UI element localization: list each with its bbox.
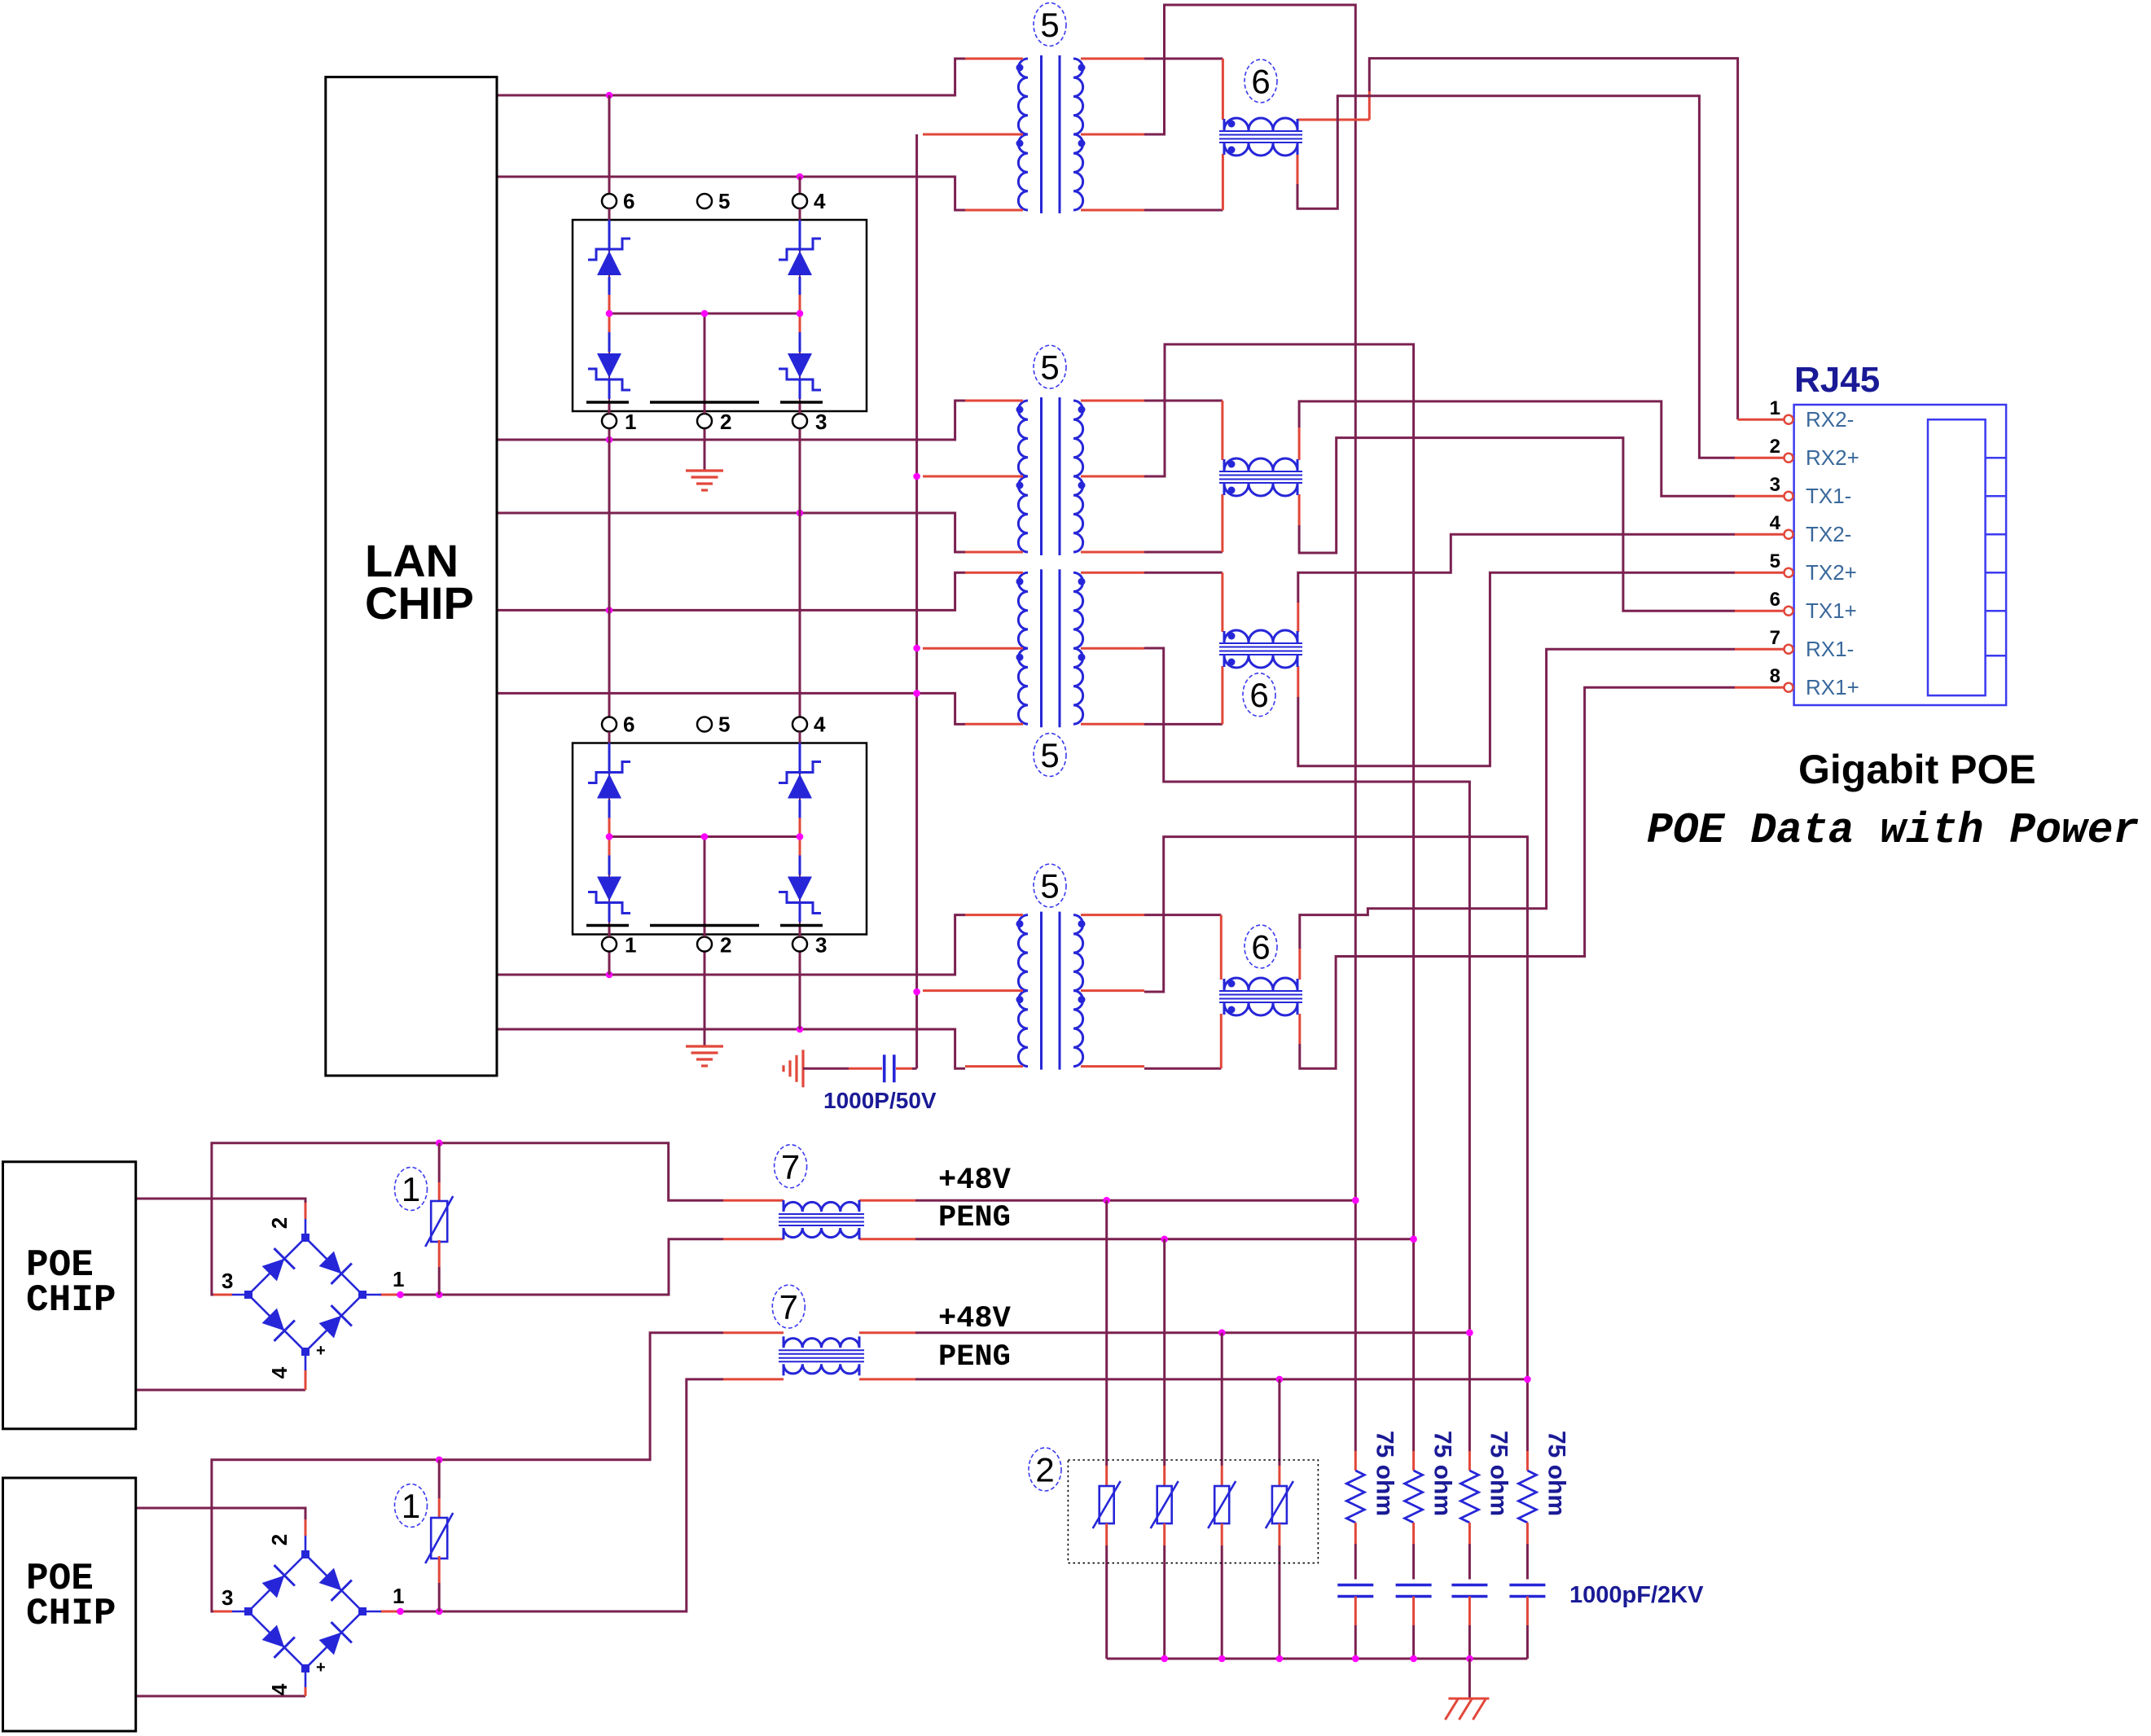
svg-text:4: 4 <box>814 189 826 213</box>
svg-text:1: 1 <box>393 1267 404 1291</box>
svg-text:RX2+: RX2+ <box>1806 445 1859 470</box>
svg-text:6: 6 <box>1251 63 1270 101</box>
svg-text:POE Data with Power: POE Data with Power <box>1647 806 2139 855</box>
svg-text:2: 2 <box>267 1534 292 1545</box>
svg-text:5: 5 <box>718 712 730 737</box>
svg-text:8: 8 <box>1770 665 1780 687</box>
svg-text:RX2-: RX2- <box>1806 407 1854 432</box>
svg-text:TX1-: TX1- <box>1806 484 1851 508</box>
svg-text:4: 4 <box>267 1683 292 1695</box>
svg-text:RX1-: RX1- <box>1806 637 1854 661</box>
svg-text:5: 5 <box>1040 867 1059 905</box>
svg-text:1: 1 <box>402 1170 420 1208</box>
svg-text:4: 4 <box>814 712 826 737</box>
svg-text:2: 2 <box>267 1217 292 1229</box>
svg-text:2: 2 <box>1770 436 1780 458</box>
svg-text:+: + <box>316 1659 326 1677</box>
svg-text:5: 5 <box>718 189 730 213</box>
svg-text:6: 6 <box>623 189 634 213</box>
svg-text:1000pF/2KV: 1000pF/2KV <box>1569 1582 1704 1608</box>
svg-text:TX2-: TX2- <box>1806 522 1851 546</box>
svg-text:3: 3 <box>222 1585 233 1610</box>
svg-text:TX2+: TX2+ <box>1806 560 1857 585</box>
svg-text:1: 1 <box>1770 397 1780 419</box>
svg-text:3: 3 <box>815 410 827 434</box>
svg-text:+48V: +48V <box>938 1164 1012 1198</box>
svg-text:5: 5 <box>1040 6 1059 44</box>
svg-text:1: 1 <box>625 410 636 434</box>
svg-text:75 ohm: 75 ohm <box>1485 1431 1512 1516</box>
svg-text:+: + <box>316 1342 326 1360</box>
svg-text:PENG: PENG <box>938 1340 1011 1374</box>
svg-text:4: 4 <box>1770 512 1781 534</box>
svg-text:+48V: +48V <box>938 1302 1012 1336</box>
svg-text:7: 7 <box>779 1288 798 1326</box>
svg-text:RJ45: RJ45 <box>1794 360 1880 400</box>
svg-text:2: 2 <box>720 933 731 958</box>
svg-text:5: 5 <box>1770 550 1780 572</box>
svg-text:3: 3 <box>222 1269 233 1293</box>
svg-text:6: 6 <box>1249 676 1268 714</box>
svg-text:75 ohm: 75 ohm <box>1371 1431 1398 1516</box>
svg-text:6: 6 <box>1770 589 1780 611</box>
svg-text:75 ohm: 75 ohm <box>1429 1431 1456 1516</box>
svg-text:CHIP: CHIP <box>365 577 474 629</box>
svg-text:5: 5 <box>1040 736 1059 774</box>
svg-text:4: 4 <box>267 1366 292 1379</box>
svg-text:RX1+: RX1+ <box>1806 675 1859 699</box>
svg-text:PENG: PENG <box>938 1201 1011 1235</box>
svg-text:75 ohm: 75 ohm <box>1543 1431 1569 1516</box>
svg-text:1: 1 <box>393 1584 404 1608</box>
svg-text:5: 5 <box>1040 349 1059 387</box>
svg-text:6: 6 <box>1251 928 1270 967</box>
svg-text:CHIP: CHIP <box>26 1593 116 1635</box>
svg-text:Gigabit POE: Gigabit POE <box>1798 747 2036 792</box>
svg-text:2: 2 <box>1035 1451 1054 1489</box>
svg-text:TX1+: TX1+ <box>1806 598 1857 623</box>
svg-text:1: 1 <box>625 933 636 958</box>
svg-text:1: 1 <box>402 1487 420 1525</box>
svg-text:2: 2 <box>720 410 731 434</box>
svg-text:3: 3 <box>1770 474 1780 496</box>
svg-text:CHIP: CHIP <box>26 1279 116 1322</box>
svg-text:3: 3 <box>815 933 827 958</box>
svg-text:6: 6 <box>623 712 634 737</box>
svg-text:1000P/50V: 1000P/50V <box>823 1088 937 1113</box>
svg-text:7: 7 <box>781 1147 800 1186</box>
svg-text:7: 7 <box>1770 627 1780 649</box>
